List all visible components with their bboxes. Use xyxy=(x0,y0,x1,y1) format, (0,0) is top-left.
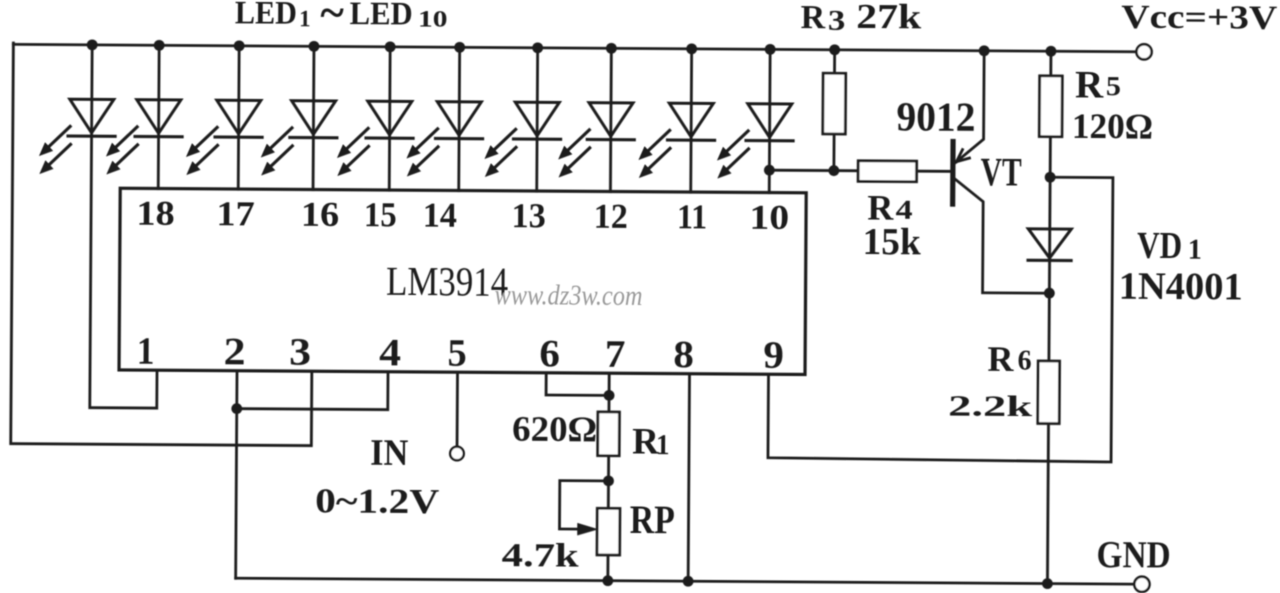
svg-text:10: 10 xyxy=(749,198,789,237)
svg-text:~: ~ xyxy=(320,0,344,38)
svg-text:R: R xyxy=(987,339,1014,379)
svg-text:VD: VD xyxy=(1137,225,1182,267)
svg-text:27k: 27k xyxy=(856,0,922,36)
svg-text:GND: GND xyxy=(1096,534,1170,576)
svg-text:17: 17 xyxy=(216,194,255,233)
svg-text:LM3914: LM3914 xyxy=(386,258,508,305)
svg-text:15: 15 xyxy=(364,195,397,234)
svg-text:11: 11 xyxy=(677,197,707,236)
svg-text:2.2k: 2.2k xyxy=(948,390,1033,424)
svg-text:1N4001: 1N4001 xyxy=(1119,265,1243,309)
svg-text:13: 13 xyxy=(511,196,545,235)
svg-text:16: 16 xyxy=(301,195,339,234)
svg-text:5: 5 xyxy=(1106,71,1121,101)
svg-text:1: 1 xyxy=(656,429,670,461)
svg-text:6: 6 xyxy=(1018,345,1032,377)
svg-text:9012: 9012 xyxy=(896,93,975,140)
svg-text:14: 14 xyxy=(423,196,457,235)
svg-text:3: 3 xyxy=(828,6,846,37)
svg-text:15k: 15k xyxy=(863,221,922,263)
svg-text:4: 4 xyxy=(379,331,401,374)
svg-text:www.dz3w.com: www.dz3w.com xyxy=(494,280,642,312)
svg-text:18: 18 xyxy=(136,194,175,233)
svg-text:12: 12 xyxy=(594,197,628,236)
svg-text:7: 7 xyxy=(605,333,626,376)
svg-text:1: 1 xyxy=(1188,235,1202,266)
svg-text:1: 1 xyxy=(299,6,311,31)
svg-text:Vcc=+3V: Vcc=+3V xyxy=(1121,0,1278,37)
svg-text:R: R xyxy=(1075,63,1104,106)
svg-text:0~1.2V: 0~1.2V xyxy=(315,481,439,521)
svg-text:120Ω: 120Ω xyxy=(1072,106,1153,147)
svg-text:9: 9 xyxy=(763,334,784,377)
svg-text:4: 4 xyxy=(896,195,913,225)
svg-text:1: 1 xyxy=(137,330,155,373)
svg-text:VT: VT xyxy=(981,149,1023,194)
svg-text:4.7k: 4.7k xyxy=(502,537,579,575)
svg-text:LED: LED xyxy=(350,0,413,32)
svg-text:8: 8 xyxy=(673,333,694,376)
svg-text:RP: RP xyxy=(630,497,675,542)
svg-text:10: 10 xyxy=(418,6,448,31)
svg-text:LED: LED xyxy=(235,0,297,32)
svg-text:3: 3 xyxy=(289,331,311,374)
svg-text:2: 2 xyxy=(224,330,246,373)
svg-text:6: 6 xyxy=(539,332,560,375)
svg-text:5: 5 xyxy=(447,332,466,375)
svg-text:R: R xyxy=(800,0,825,36)
svg-text:IN: IN xyxy=(370,433,409,474)
svg-text:620Ω: 620Ω xyxy=(512,409,597,450)
